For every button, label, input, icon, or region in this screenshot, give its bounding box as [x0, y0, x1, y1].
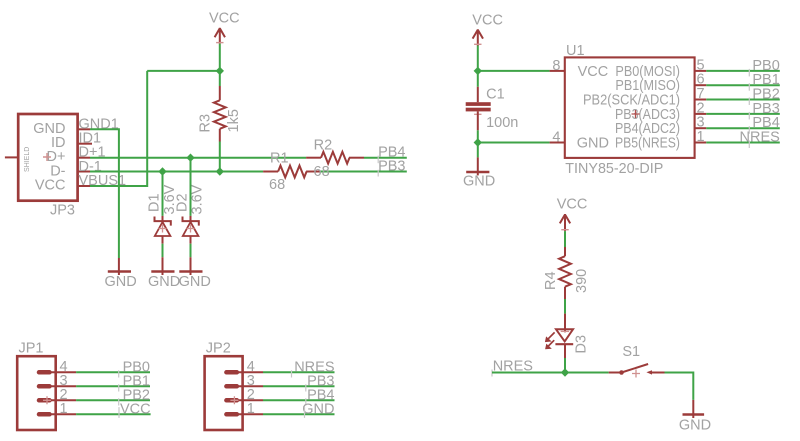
resistor R1 [263, 151, 320, 194]
ground GND (S1) [679, 400, 711, 434]
svg-text:S1: S1 [622, 344, 640, 360]
diode D2 (zener 3.6V) [175, 158, 206, 258]
pin JP2-4 [226, 370, 237, 375]
svg-text:D1: D1 [147, 193, 163, 212]
svg-text:TINY85-20-DIP: TINY85-20-DIP [565, 161, 663, 177]
svg-text:GND: GND [179, 274, 211, 290]
node junction C1 top [474, 67, 482, 75]
svg-text:VCC: VCC [35, 178, 66, 194]
pin U1-6 / net PB1 [695, 84, 707, 86]
svg-text:D3: D3 [574, 335, 590, 354]
pin U1-1 / net NRES [695, 142, 707, 144]
wire GND1 to ground [90, 129, 119, 258]
wire R1 to PB3 label [320, 171, 407, 173]
svg-text:PB5(NRES): PB5(NRES) [615, 136, 680, 152]
wire JP2-1 net GND [263, 413, 335, 415]
node junction at (219.8,70.9) [216, 67, 224, 75]
wire JP1-1 net VCC [76, 413, 151, 415]
pin JP2-1 [226, 412, 237, 417]
pin U1-5 / net PB0 [695, 70, 707, 72]
pin JP2-3 [226, 384, 237, 389]
wire JP1-3 net PB1 [76, 385, 150, 387]
svg-text:JP2: JP2 [206, 341, 231, 357]
wire to U1 pin 4 [478, 142, 550, 144]
wire VBUS vertical riser [90, 71, 147, 186]
pin ID1 [78, 143, 92, 145]
pin U1-8 [550, 70, 565, 72]
svg-text:1: 1 [60, 401, 68, 417]
pin JP1-3 [39, 384, 50, 389]
svg-text:68: 68 [269, 177, 285, 193]
node junction D3 / NRES [561, 368, 569, 376]
ground GND (D1) [148, 257, 180, 290]
diode D3 (LED) [545, 314, 590, 373]
svg-text:SHIELD: SHIELD [24, 147, 31, 172]
svg-text:GND: GND [148, 274, 180, 290]
pin U1-4 [550, 142, 565, 144]
switch S1 [609, 344, 665, 378]
svg-text:1: 1 [697, 129, 705, 145]
svg-text:VCC: VCC [578, 64, 609, 80]
svg-text:GND: GND [679, 418, 711, 434]
resistor R4 [543, 231, 590, 314]
svg-text:GND: GND [302, 401, 334, 417]
svg-text:VCC: VCC [120, 401, 151, 417]
IC U1 TINY85-20-DIP [565, 43, 695, 177]
ground GND (JP3) [105, 258, 137, 290]
svg-text:3.6V: 3.6V [190, 184, 206, 214]
connector JP1 [17, 341, 56, 431]
svg-text:VCC: VCC [209, 11, 240, 27]
svg-text:1: 1 [247, 401, 255, 417]
svg-text:8: 8 [552, 58, 560, 74]
wire S1 to ground [665, 373, 694, 400]
diode D1 (zener 3.6V) [147, 172, 179, 258]
svg-text:100n: 100n [486, 115, 518, 131]
wire R2 to PB4 label [364, 157, 407, 159]
pin JP1-4 [39, 370, 50, 375]
pin VBUS1 [78, 185, 90, 187]
svg-text:R4: R4 [543, 271, 559, 290]
resistor R2 [306, 137, 364, 180]
wire D- rail (to R1) [90, 171, 263, 173]
pin JP1-1 [39, 412, 50, 417]
resistor R3 [198, 71, 243, 172]
svg-text:PB3: PB3 [378, 159, 405, 175]
wire JP1-2 net PB2 [76, 399, 150, 401]
supply VCC (R4) [557, 197, 588, 232]
svg-text:R3: R3 [198, 114, 214, 133]
svg-text:GND: GND [463, 174, 495, 190]
svg-text:R2: R2 [314, 137, 333, 153]
pin JP1-2 [39, 398, 50, 403]
wire JP1-4 net PB0 [76, 371, 150, 373]
svg-text:JP3: JP3 [50, 203, 75, 219]
pin D+1 [78, 157, 90, 159]
node junction C1 bottom [474, 138, 482, 146]
pin U1-2 / net PB3 [695, 113, 707, 115]
svg-text:JP1: JP1 [19, 341, 44, 357]
svg-text:1k5: 1k5 [226, 109, 242, 132]
wire to U1 pin 8 [478, 70, 550, 72]
ground GND (C1) [463, 143, 495, 190]
node junction D1 on D- rail [158, 167, 166, 175]
svg-text:VCC: VCC [557, 197, 588, 213]
capacitor C1 [466, 71, 519, 143]
supply VCC (C1) [472, 13, 503, 46]
pin GND1 [78, 128, 90, 130]
pin JP2-2 [226, 398, 237, 403]
svg-text:VCC: VCC [472, 13, 503, 29]
svg-text:D2: D2 [175, 193, 191, 212]
wire top rail horizontal [147, 70, 220, 72]
wire D+ rail (to R2) [90, 157, 306, 159]
pin U1-3 / net PB4 [695, 127, 707, 129]
svg-text:GND: GND [105, 274, 137, 290]
wire VCC stub down to top rail [219, 44, 221, 71]
ground GND (D2) [179, 257, 211, 290]
pin SHIELD stub (left of JP3) [5, 156, 18, 158]
svg-text:390: 390 [574, 269, 590, 293]
node junction R3 bottom on PB3 rail [216, 167, 224, 175]
svg-text:NRES: NRES [740, 130, 780, 146]
wire JP2-2 net PB4 [263, 399, 335, 401]
svg-text:68: 68 [314, 164, 330, 180]
connector JP3 [18, 114, 77, 219]
svg-text:R1: R1 [270, 151, 289, 167]
svg-text:C1: C1 [486, 87, 505, 103]
wire JP2-4 net NRES [263, 371, 335, 373]
connector JP2 [205, 341, 243, 431]
pin D-1 [78, 171, 90, 173]
node junction D2 on D+ rail [186, 154, 194, 162]
svg-text:4: 4 [552, 130, 560, 146]
wire JP2-3 net PB3 [263, 385, 335, 387]
wire VCC down to pin8 rail [477, 46, 479, 71]
pin U1-7 / net PB2 [695, 99, 707, 101]
supply VCC (top left) [209, 11, 240, 44]
origin cross JP3 [43, 153, 51, 161]
svg-text:GND: GND [577, 136, 609, 152]
